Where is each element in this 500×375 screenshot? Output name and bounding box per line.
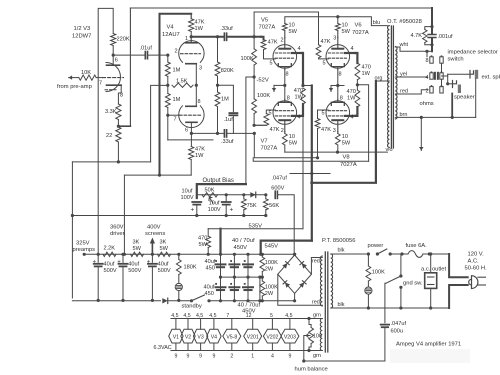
resistor 10 5W V5 plate — [284, 31, 286, 38]
capacitor bank col1 lower 40uf — [220, 277, 222, 300]
svg-text:535V: 535V — [249, 224, 263, 230]
capacitor bank col3 lower — [247, 277, 249, 300]
svg-text:gnd sw.: gnd sw. — [403, 281, 423, 287]
svg-text:2: 2 — [281, 38, 284, 44]
wire plate A to .33uf — [191, 36, 223, 38]
svg-text:V203: V203 — [284, 334, 296, 340]
wire cap to V4 grid — [149, 54, 168, 56]
switch wiper blobs — [434, 72, 436, 80]
svg-text:1W: 1W — [347, 96, 356, 102]
svg-text:40uf: 40uf — [128, 262, 139, 268]
svg-text:40uf: 40uf — [104, 262, 115, 268]
wire 1M right bottom — [217, 107, 219, 134]
resistor 100K 2W lower bleeder — [261, 277, 263, 281]
svg-text:9: 9 — [288, 354, 291, 360]
svg-text:6: 6 — [115, 58, 118, 64]
wire plate supply rail — [285, 17, 338, 24]
wire bridge AC right to red upper — [311, 258, 322, 275]
svg-text:fuse 6A.: fuse 6A. — [406, 243, 428, 249]
svg-text:8: 8 — [340, 96, 343, 102]
svg-text:a.c. outlet: a.c. outlet — [421, 267, 447, 273]
wire bias rail top to V6 — [254, 12, 318, 45]
svg-text:100K: 100K — [372, 270, 385, 276]
resistor 47K V6 grid — [316, 45, 321, 58]
resistor 22 — [116, 127, 121, 142]
svg-text:blk: blk — [338, 302, 345, 308]
svg-text:47K: 47K — [195, 147, 205, 153]
svg-text:V4: V4 — [167, 25, 175, 31]
svg-text:4: 4 — [351, 46, 354, 52]
capacitor 40uf 500V first — [97, 254, 99, 262]
heater V202 — [263, 329, 281, 343]
wire 1M to tail node — [167, 77, 169, 94]
resistor 10 5W V7 plate — [284, 132, 286, 134]
svg-text:10K: 10K — [81, 70, 91, 76]
wire grid A down to 1M — [167, 55, 169, 62]
diode standby — [162, 298, 167, 303]
svg-text:6: 6 — [185, 128, 188, 134]
wire ground rail y162 — [72, 161, 150, 163]
svg-text:7: 7 — [174, 117, 177, 123]
wire 47K lower to rail — [190, 160, 192, 176]
wire neutral from plug — [449, 285, 468, 308]
wire mid rail to bleeder — [259, 277, 261, 300]
resistor 470 1W screens left pair — [301, 88, 306, 104]
wire grn heater top — [171, 318, 322, 320]
wire cathode bus V5-V7 — [284, 85, 286, 100]
svg-text:V4: V4 — [211, 334, 217, 340]
wire plate B down — [190, 122, 192, 146]
wire V7 plate to OT rail — [284, 145, 286, 152]
svg-text:5W: 5W — [289, 29, 298, 35]
svg-text:preamps: preamps — [73, 247, 96, 253]
svg-text:5: 5 — [322, 111, 325, 117]
wire V6 screen chain — [355, 53, 357, 63]
svg-text:5W: 5W — [199, 242, 208, 248]
wire to .1uf branch — [218, 85, 234, 112]
wire 3.3K to 22 — [117, 120, 119, 128]
wire OT secondary wht — [395, 47, 427, 57]
wire 360V riser x124 — [123, 175, 125, 254]
svg-text:100K: 100K — [241, 56, 254, 62]
heater V2 — [181, 329, 195, 343]
wire feedback to wht node — [425, 50, 428, 53]
svg-text:V5: V5 — [261, 18, 268, 24]
wire V7 47K bottom to bias column — [254, 124, 266, 126]
node screen mid — [301, 84, 304, 87]
svg-text:red: red — [400, 89, 408, 95]
svg-text:47K: 47K — [268, 39, 278, 45]
resistor 100K bias V7 — [252, 99, 257, 114]
svg-text:9: 9 — [212, 354, 215, 360]
V4A cathode bar — [186, 63, 197, 65]
svg-text:450: 450 — [206, 266, 215, 272]
svg-text:2W: 2W — [265, 291, 274, 297]
svg-text:1W: 1W — [362, 71, 371, 77]
svg-text:10: 10 — [289, 134, 295, 140]
wire cap bank mid rail — [221, 276, 260, 278]
svg-text:450V: 450V — [234, 245, 248, 251]
resistor 100K pilot dropper — [367, 254, 369, 266]
wire bias to bridge — [278, 195, 294, 254]
node grid B — [166, 114, 169, 117]
svg-text:4: 4 — [298, 115, 301, 121]
svg-text:speaker: speaker — [454, 95, 475, 101]
tube V8 7027A — [326, 101, 350, 125]
resistor 220K — [111, 34, 116, 46]
svg-text:.01uf: .01uf — [140, 45, 153, 51]
svg-text:180K: 180K — [184, 265, 197, 271]
svg-text:P.T. 8500056: P.T. 8500056 — [322, 238, 355, 244]
svg-text:5: 5 — [270, 61, 273, 67]
svg-text:from pre-amp: from pre-amp — [57, 84, 92, 90]
svg-text:4: 4 — [426, 75, 429, 81]
hum balance wiper — [306, 334, 310, 338]
V4A grid dashed — [181, 53, 201, 55]
svg-text:3: 3 — [333, 36, 336, 42]
svg-text:-52V: -52V — [257, 78, 269, 84]
svg-text:7: 7 — [226, 313, 229, 319]
wire V7 47K to grid — [266, 110, 273, 114]
svg-text:V201: V201 — [247, 334, 259, 340]
node cathode tail — [195, 84, 198, 87]
svg-text:.047uf: .047uf — [271, 176, 287, 182]
resistor 820K — [217, 37, 219, 62]
svg-text:.33uf: .33uf — [220, 26, 233, 32]
ground arrow speaker common — [420, 117, 422, 150]
svg-text:V6: V6 — [355, 23, 362, 29]
wire V5 cathode to ground — [284, 69, 286, 85]
transformer O.T. 8950028 primary winding — [388, 26, 390, 148]
svg-text:impedance selector: impedance selector — [448, 50, 498, 56]
svg-text:3K: 3K — [160, 240, 167, 246]
pilot lamp — [178, 275, 180, 284]
jack ext. spk — [470, 71, 474, 79]
wire 360V rail y175 — [124, 174, 191, 176]
svg-text:47K: 47K — [321, 127, 331, 133]
wire V4 tail ground return — [151, 85, 168, 161]
resistor 1M lower — [165, 94, 170, 108]
mains hot rail — [367, 252, 370, 255]
wire V8 plate to OT rail — [337, 145, 339, 152]
wire bridge minus to ground rail — [294, 293, 296, 300]
svg-text:V8: V8 — [343, 155, 350, 161]
svg-text:9: 9 — [174, 354, 177, 360]
svg-text:500V: 500V — [128, 268, 141, 274]
node outlet top — [429, 252, 432, 255]
node 820K bottom — [217, 76, 219, 92]
svg-text:325V: 325V — [76, 241, 90, 247]
svg-text:3: 3 — [333, 128, 336, 134]
node 820K junction — [216, 35, 219, 38]
svg-text:5W: 5W — [342, 29, 351, 35]
svg-text:12: 12 — [246, 313, 252, 319]
svg-text:vio: vio — [386, 147, 393, 153]
svg-text:4: 4 — [271, 354, 274, 360]
wire cathode A to 1.5K — [195, 64, 197, 85]
svg-text:V202: V202 — [266, 334, 278, 340]
svg-text:red: red — [312, 259, 320, 265]
wire 1M lower to grid B — [167, 108, 169, 141]
resistor 100K bias V5 — [252, 49, 257, 65]
svg-text:4,5: 4,5 — [285, 313, 292, 319]
svg-text:V1: V1 — [173, 334, 179, 340]
wire screens filter drop thick — [219, 229, 221, 255]
svg-text:10: 10 — [342, 134, 348, 140]
wire screens drop x303 to 535V rail — [302, 104, 304, 229]
wire feedback junction to top rail — [118, 125, 130, 127]
resistor 1.5K tail — [172, 83, 193, 87]
svg-text:2: 2 — [175, 48, 178, 54]
svg-text:47K: 47K — [195, 20, 205, 26]
wire right bus to jacks — [442, 76, 448, 84]
resistor 10K grid — [69, 77, 79, 79]
resistor 75K — [242, 193, 245, 196]
svg-text:10uf: 10uf — [182, 189, 193, 195]
svg-text:+: + — [191, 207, 195, 214]
svg-text:ohms: ohms — [420, 101, 434, 107]
svg-text:blk: blk — [338, 248, 345, 254]
svg-text:100: 100 — [313, 334, 322, 340]
capacitor .01uf — [144, 52, 146, 59]
svg-text:V7: V7 — [261, 139, 268, 145]
svg-text:75K: 75K — [247, 203, 257, 209]
wire OT red to 2 ohm — [395, 90, 428, 94]
tube V3 1/2 12DW7 envelope — [106, 63, 121, 92]
svg-text:1W: 1W — [195, 153, 204, 159]
wire 8 contact to 4 contact right bus — [441, 63, 443, 73]
resistor 47K V7 grid — [264, 114, 269, 126]
svg-text:5: 5 — [269, 111, 272, 117]
wire blk primary bottom — [331, 307, 449, 309]
svg-text:600u: 600u — [391, 329, 403, 335]
svg-text:500V: 500V — [158, 268, 171, 274]
resistor 470 1W V8 screen — [355, 90, 360, 107]
svg-text:standby: standby — [182, 303, 202, 309]
svg-text:.047uf: .047uf — [391, 321, 407, 327]
svg-text:5W: 5W — [342, 141, 351, 147]
node bridge plus — [293, 253, 296, 256]
arrow 400V screens — [151, 244, 153, 254]
resistor 3.3K — [116, 104, 121, 120]
svg-text:3K: 3K — [133, 240, 140, 246]
svg-text:450: 450 — [205, 291, 214, 297]
jack speaker — [453, 81, 457, 88]
svg-text:7027A: 7027A — [352, 30, 369, 36]
svg-text:47K: 47K — [321, 39, 331, 45]
svg-text:9: 9 — [187, 354, 190, 360]
svg-text:100K: 100K — [265, 260, 278, 266]
capacitor .33uf lower — [223, 130, 225, 137]
svg-text:5W: 5W — [133, 246, 142, 252]
svg-text:10: 10 — [342, 23, 348, 29]
bias feed -52V network — [253, 12, 255, 49]
wire lower pair line — [253, 158, 368, 161]
resistor 100K 2W upper bleeder — [261, 254, 263, 257]
svg-text:4,5: 4,5 — [171, 313, 178, 319]
svg-text:400V: 400V — [147, 225, 161, 231]
svg-text:100V: 100V — [208, 207, 221, 213]
wire phase B column down — [254, 133, 317, 157]
resistor 470 1W V6 screen — [355, 63, 360, 80]
resistor 4.7K feedback — [425, 27, 432, 30]
svg-text:ext. spk: ext. spk — [482, 75, 500, 81]
wire to speaker jack — [448, 83, 453, 85]
svg-text:4: 4 — [351, 115, 354, 121]
resistor 2.2K — [103, 252, 116, 256]
wire V4 B+ riser — [160, 14, 192, 175]
heater V201 — [244, 329, 262, 343]
V4B grid line y140 — [168, 139, 213, 141]
wire V8 47K to grid — [318, 110, 327, 119]
bridge rectifier diamond — [278, 255, 312, 293]
capacitor .33uf upper — [223, 33, 225, 40]
svg-text:1.5K: 1.5K — [176, 79, 188, 85]
node gnd-sw hot tap — [400, 252, 403, 255]
wire to ext spk jack — [448, 73, 470, 75]
svg-text:8: 8 — [339, 72, 342, 78]
node screens right mid — [356, 80, 358, 90]
wire V6 47K to grid — [319, 57, 327, 60]
svg-text:7027A: 7027A — [261, 146, 278, 152]
svg-text:A.C.: A.C. — [468, 259, 480, 265]
capacitor .001uf feedback — [431, 8, 433, 34]
ground rail right — [209, 300, 295, 302]
tube V7 7027A — [273, 101, 297, 125]
svg-text:2.2K: 2.2K — [104, 246, 116, 252]
wire chassis rail — [304, 360, 385, 362]
wire bias return rail — [72, 215, 265, 217]
wire 100K V7 to grid node — [254, 114, 266, 126]
wire stub y173 — [290, 173, 330, 175]
wire caps to ground — [97, 299, 99, 302]
svg-text:driver: driver — [110, 231, 125, 237]
wire V5 screen to bus — [301, 53, 304, 86]
resistor 47K V5 grid — [261, 37, 264, 40]
wire 470 to V7 screen — [302, 104, 303, 116]
svg-text:470: 470 — [347, 89, 356, 95]
wire 4-2 right bus — [441, 79, 443, 86]
node feedback junction — [117, 125, 120, 128]
standby switch — [190, 299, 193, 302]
wire 22 to ground rail y162 — [117, 142, 119, 162]
svg-text:V2: V2 — [185, 334, 191, 340]
wire bias node row — [197, 194, 266, 196]
svg-text:.001uf: .001uf — [438, 34, 453, 40]
P.T. heater winding — [320, 319, 322, 351]
wire right screens to drop — [357, 85, 368, 161]
wire ext spk sleeve to common — [475, 79, 477, 118]
svg-text:V3: V3 — [197, 334, 203, 340]
svg-text:3.3K: 3.3K — [105, 109, 117, 115]
V3 beam plate dashed — [105, 89, 116, 91]
svg-text:100V: 100V — [181, 195, 194, 201]
svg-text:4,5: 4,5 — [209, 313, 216, 319]
svg-text:.1uf: .1uf — [224, 117, 234, 123]
wire V6 cathode ground — [337, 70, 339, 86]
ground arrow V5 V7 cathodes — [274, 84, 285, 86]
V4A plate bar — [186, 42, 198, 44]
resistor 1M right — [215, 92, 220, 107]
svg-text:220K: 220K — [117, 37, 130, 43]
wire .33uf lower out — [228, 132, 255, 134]
svg-text:56K: 56K — [269, 203, 279, 209]
wire 470 to V8 screen — [355, 107, 357, 116]
diode bias — [250, 192, 255, 197]
wire plate rail to OT blu — [338, 17, 387, 26]
resistor 180K — [178, 254, 180, 259]
V4B grid dashed — [180, 114, 201, 116]
V4B plate bar — [186, 121, 197, 123]
svg-text:10: 10 — [289, 23, 295, 29]
svg-text:4,5: 4,5 — [183, 313, 190, 319]
wire B+ 325V riser for V3 — [98, 8, 113, 254]
svg-text:grn: grn — [313, 353, 321, 359]
wire bridge AC left to red lower — [278, 274, 323, 305]
svg-text:40uf: 40uf — [158, 262, 169, 268]
wire V8 47K bottom to phase B — [317, 129, 319, 158]
wire plate to coupling cap — [113, 54, 144, 56]
svg-text:40 / 70uf: 40 / 70uf — [232, 238, 255, 244]
svg-text:2: 2 — [230, 354, 233, 360]
svg-text:22: 22 — [106, 133, 112, 139]
svg-text:40uf: 40uf — [204, 285, 215, 291]
resistor 56K — [264, 193, 267, 196]
svg-text:grn: grn — [313, 313, 321, 319]
V3 plate bar — [107, 64, 120, 66]
resistor 47K V8 grid — [315, 119, 320, 129]
plug prongs — [478, 276, 486, 278]
svg-text:2: 2 — [281, 128, 284, 134]
bridge diode bottom-left — [283, 281, 290, 288]
bridge diode top-right — [300, 262, 307, 269]
svg-text:470: 470 — [294, 88, 303, 94]
capacitor bank col2 upper — [233, 254, 235, 277]
wire hot to plug — [449, 254, 468, 277]
transformer P.T. 8500056 secondary HV winding — [320, 256, 322, 306]
svg-text:8: 8 — [286, 72, 289, 78]
svg-text:1W: 1W — [295, 95, 304, 101]
svg-text:7027A: 7027A — [259, 25, 276, 31]
wire diode to switch — [169, 300, 191, 302]
svg-text:545V: 545V — [265, 244, 279, 250]
svg-text:5: 5 — [270, 313, 273, 319]
heater V5-8 — [223, 329, 241, 343]
svg-text:brn: brn — [400, 112, 408, 118]
svg-text:40uf: 40uf — [205, 259, 216, 265]
svg-text:470: 470 — [198, 236, 207, 242]
svg-text:1M: 1M — [173, 97, 181, 103]
svg-text:8: 8 — [198, 99, 201, 105]
wire cathode to 3.3K — [118, 85, 121, 104]
tube V6 7027A — [326, 45, 350, 69]
svg-text:wht: wht — [399, 42, 409, 48]
wire grid B lead — [168, 114, 180, 116]
svg-text:50-60 H.: 50-60 H. — [465, 266, 488, 272]
P.T. core — [324, 252, 326, 352]
resistor 47K 1W upper — [190, 14, 192, 19]
svg-text:V5-8: V5-8 — [226, 334, 237, 340]
V4B cathode bar — [186, 105, 197, 107]
svg-text:4.7K: 4.7K — [411, 33, 423, 39]
wire blk primary top — [331, 253, 369, 255]
svg-text:.33uf: .33uf — [221, 139, 234, 145]
resistor 10 5W V6 plate — [337, 31, 339, 38]
svg-text:8: 8 — [287, 96, 290, 102]
wire feedback top rail — [130, 7, 432, 9]
svg-text:500V: 500V — [104, 268, 117, 274]
svg-text:2W: 2W — [265, 267, 274, 273]
